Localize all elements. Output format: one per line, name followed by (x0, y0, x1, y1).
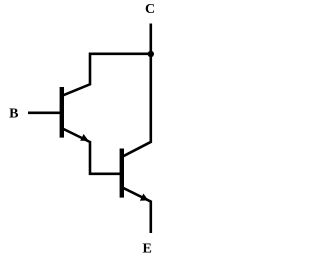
svg-text:C: C (145, 2, 155, 17)
svg-text:E: E (143, 241, 152, 256)
svg-text:B: B (9, 107, 18, 122)
